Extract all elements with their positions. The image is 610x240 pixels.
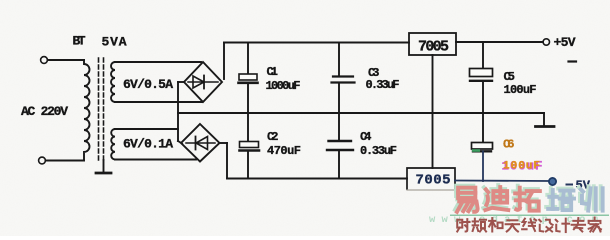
watermark big char 5 shadow bbox=[579, 186, 601, 208]
minus mark bbox=[569, 60, 577, 62]
terminal top-left bbox=[41, 57, 48, 64]
watermark line2 char 2 (pin) bbox=[473, 219, 486, 232]
watermark line2 char 1 (she) bbox=[457, 219, 469, 231]
svg-text:+5V: +5V bbox=[554, 35, 576, 50]
watermark line2 char 4 (tian) bbox=[506, 220, 519, 231]
watermark green line bbox=[450, 214, 609, 216]
svg-text:C4: C4 bbox=[360, 130, 372, 144]
wire bbox=[46, 160, 85, 162]
wire bridge1 output bbox=[223, 43, 225, 80]
transformer core bbox=[98, 58, 100, 160]
transformer primary winding bbox=[84, 60, 90, 161]
watermark big char 1 shadow bbox=[455, 186, 476, 210]
terminal +5V bbox=[543, 39, 549, 45]
secondary winding 6V/0.1A bbox=[111, 129, 115, 159]
svg-text:7005: 7005 bbox=[416, 173, 451, 189]
watermark big char 5 (xun) bbox=[581, 188, 603, 210]
watermark line2 char 8 (zhuan) bbox=[572, 218, 585, 231]
watermark big char 3 (tuo) bbox=[515, 188, 540, 211]
regulator U2 7005 bbox=[407, 168, 455, 189]
wire bottom rail left bbox=[227, 178, 407, 180]
watermark big char 4 (pei) bbox=[548, 190, 574, 210]
minus of -5V bbox=[567, 184, 573, 186]
wire top rail right bbox=[456, 41, 543, 43]
svg-text:100uF: 100uF bbox=[504, 83, 537, 97]
svg-text:6V/0.5A: 6V/0.5A bbox=[123, 77, 173, 92]
wire bridge2 output bbox=[220, 142, 228, 144]
capacitor C1 bbox=[239, 74, 257, 80]
svg-text:C6: C6 bbox=[503, 138, 515, 152]
watermark big char 1 (yi) bbox=[457, 188, 478, 212]
svg-text:5VA: 5VA bbox=[102, 35, 127, 50]
watermark line2 char 3 (he) bbox=[489, 218, 502, 231]
svg-text:1000uF: 1000uF bbox=[266, 79, 301, 93]
watermark big char 2 shadow bbox=[483, 185, 506, 208]
wire U1 gnd pin bbox=[432, 55, 434, 168]
wire bbox=[48, 59, 85, 61]
capacitor C2 bbox=[240, 142, 259, 148]
capacitor C4 bbox=[329, 140, 352, 142]
svg-text:C1: C1 bbox=[267, 65, 279, 79]
svg-text:0.33uF: 0.33uF bbox=[366, 78, 400, 92]
watermark big char 3 shadow bbox=[513, 186, 538, 209]
navy tinted parts (under watermark) bbox=[455, 152, 572, 186]
svg-text:7005: 7005 bbox=[418, 39, 449, 56]
svg-text:470uF: 470uF bbox=[267, 144, 301, 158]
wire C5/C6 column bbox=[482, 42, 484, 69]
diode D2 bbox=[186, 142, 215, 144]
capacitor C3 bbox=[333, 75, 353, 77]
svg-text:100uF: 100uF bbox=[503, 161, 540, 173]
svg-text:6V/0.1A: 6V/0.1A bbox=[123, 137, 173, 152]
secondary winding 6V/0.5A bbox=[111, 62, 115, 102]
wire bottom rail right bbox=[455, 180, 549, 183]
svg-text:AC 220V: AC 220V bbox=[21, 104, 68, 119]
watermark line2 char 7 (ji) bbox=[556, 219, 569, 232]
watermark big char 2 (di) bbox=[485, 187, 508, 210]
svg-text:C2: C2 bbox=[267, 130, 279, 144]
diode D1 bbox=[188, 81, 218, 83]
terminal -5V bbox=[549, 178, 556, 185]
svg-text:C5: C5 bbox=[504, 70, 516, 84]
watermark line2 char 6 (she2) bbox=[539, 220, 552, 232]
watermark line2 char 9 (jia) bbox=[589, 218, 601, 232]
watermark big char 4 shadow bbox=[546, 188, 572, 208]
wire middle rail bbox=[178, 112, 544, 114]
watermark line2 char 5 (xian) bbox=[522, 219, 536, 231]
svg-text:0.33uF: 0.33uF bbox=[360, 144, 397, 158]
regulator U1 7005 bbox=[409, 33, 456, 55]
wire C1/C2 column bbox=[247, 43, 249, 75]
wire C6 to bottom rail bbox=[482, 152, 484, 182]
svg-text:BT: BT bbox=[73, 34, 86, 49]
terminal bottom-left bbox=[39, 157, 46, 164]
bridge rectifier D2 bbox=[181, 124, 220, 162]
wire top rail bbox=[224, 42, 409, 44]
capacitor C6 bbox=[472, 143, 493, 150]
green mark under C6 bbox=[472, 149, 480, 152]
bridge rectifier D1 bbox=[184, 62, 222, 102]
ground (right) bbox=[543, 113, 545, 126]
wire center tap bbox=[178, 81, 184, 83]
capacitor C5 bbox=[470, 69, 493, 77]
wire C3/C4 column bbox=[338, 43, 340, 77]
ground (core) bbox=[103, 160, 105, 172]
